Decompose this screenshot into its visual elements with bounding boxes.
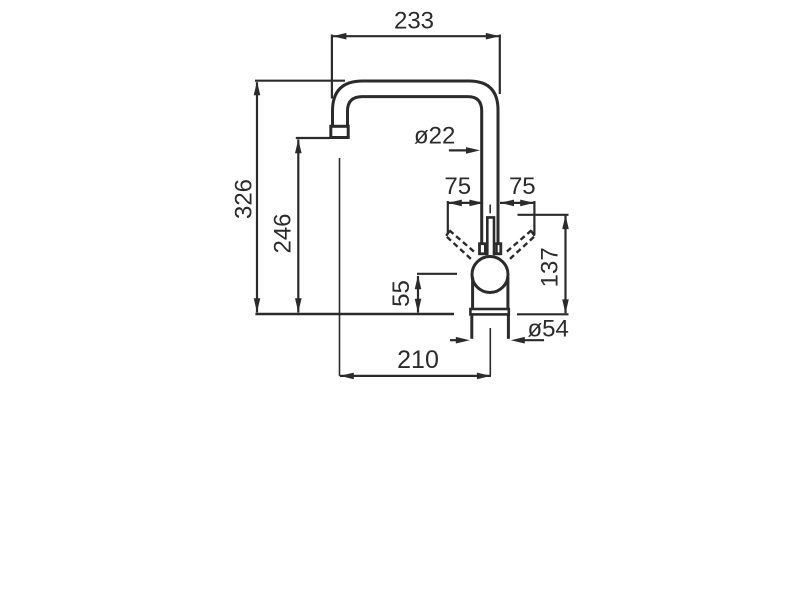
dim diameter 54 left arrow tail — [450, 339, 457, 341]
svg-text:ø22: ø22 — [414, 123, 455, 150]
svg-text:137: 137 — [537, 247, 564, 287]
dim 75 arrow mid-right — [500, 200, 514, 207]
dim 137 top ext — [518, 214, 569, 216]
dim diameter 22 leader arrow — [466, 147, 480, 154]
svg-text:75: 75 — [509, 173, 536, 200]
dim 233 arrow right — [486, 33, 500, 40]
handle lever upright — [487, 217, 494, 255]
dim 233 ext left — [331, 35, 333, 99]
svg-text:210: 210 — [397, 346, 439, 374]
spout centerline — [339, 158, 341, 376]
dim 210 arrow right — [477, 373, 491, 380]
dim 233 ext right — [499, 35, 501, 95]
lever tilted right (dashed) upper edge — [506, 230, 532, 252]
dim 246 arrow top — [295, 139, 302, 153]
body column left — [471, 277, 474, 309]
body sphere — [472, 257, 508, 293]
aerator nozzle — [331, 126, 348, 137]
dim 326 arrow bottom — [254, 298, 261, 312]
dim diameter 54 right arrow tail — [524, 339, 544, 341]
nut facet left — [484, 244, 486, 254]
nut facet right — [495, 244, 497, 254]
handle stem centerline — [489, 205, 491, 214]
svg-text:326: 326 — [231, 179, 258, 219]
dim 75 ext right — [533, 201, 535, 235]
dim 75 arrow mid-left — [469, 200, 483, 207]
dim 55 arrow top — [415, 275, 422, 289]
dim 233 arrow left — [332, 33, 346, 40]
dim 326 line — [256, 82, 258, 312]
dim diameter 22 leader line — [449, 149, 467, 151]
lever tilted right (dashed) lower edge — [508, 237, 534, 260]
dim 246 line — [297, 140, 299, 313]
dim 137 arrow bottom — [562, 299, 569, 313]
svg-text:75: 75 — [444, 173, 471, 200]
dim 75 line right — [500, 202, 534, 204]
lever tilted left (dashed) lower edge — [447, 237, 473, 260]
dim 246 arrow bottom — [295, 298, 302, 312]
body centerline below base — [489, 328, 491, 376]
handle nut — [480, 244, 501, 254]
dim 326 arrow top — [254, 81, 261, 95]
svg-text:246: 246 — [270, 213, 297, 253]
svg-text:233: 233 — [394, 8, 434, 35]
spout outer contour — [333, 81, 499, 243]
lever tilted left tip cap — [446, 231, 450, 236]
dim 55 arrow bottom — [415, 299, 422, 313]
deck reference line — [255, 313, 454, 316]
dim 75 arrow far-left — [448, 200, 462, 207]
base column right — [507, 314, 510, 338]
dim 55 line — [417, 276, 419, 313]
base column left — [470, 314, 473, 338]
dim 233 line — [332, 35, 499, 37]
dim 137 arrow top — [562, 215, 569, 229]
dim 210 arrow left — [340, 373, 354, 380]
dim 326 top ext — [255, 80, 345, 82]
body column right — [506, 277, 509, 309]
dim diameter 54 left arrow — [456, 337, 470, 344]
dim 75 ext left — [447, 201, 449, 234]
base flange — [470, 309, 508, 314]
dim 210 line — [340, 375, 491, 377]
dim 75 line left — [448, 202, 483, 204]
lever tilted left (dashed) upper edge — [449, 230, 475, 252]
spout inner contour — [348, 97, 482, 243]
dim 137 line — [564, 216, 566, 314]
dim 137 bottom ext — [517, 313, 569, 315]
lever tilted right tip cap — [531, 231, 535, 236]
dim diameter 54 right arrow — [511, 337, 525, 344]
dim 75 arrow far-right — [520, 200, 534, 207]
svg-text:55: 55 — [388, 280, 415, 307]
dim 55 top ext — [417, 273, 457, 275]
svg-text:ø54: ø54 — [528, 316, 569, 343]
dim 246 top ext — [296, 137, 330, 139]
